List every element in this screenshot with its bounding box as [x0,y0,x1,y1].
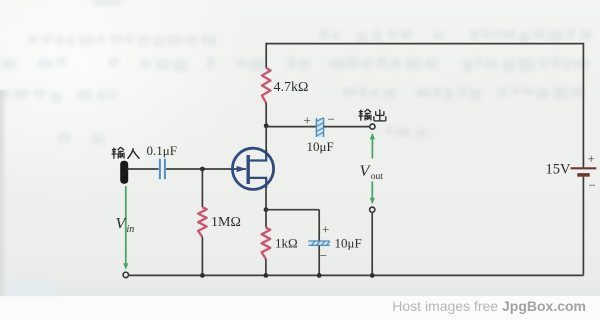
input terminal (black bar) [120,161,128,184]
node gate/R2 junction dot [200,167,205,172]
resistor R1 4.7k zigzag [262,68,271,103]
wire top rail [266,43,583,45]
wire R1 to drain [265,103,267,155]
output label 输出 (drawn glyphs) [359,111,363,113]
transistor Q1 source lead [248,178,266,188]
capacitor C1 0.1uF left plate [159,159,161,179]
transistor Q1 drain lead [248,150,266,161]
capacitor C3 10uF bypass polarized (hatched) [308,241,330,245]
Vout arrow up (green) [371,139,373,158]
wire drain node to C2 [266,126,316,128]
svg-text:+: + [322,221,329,236]
wire top rail corner down to R1 [265,43,267,68]
svg-text:10μF: 10μF [307,139,334,154]
transistor Q1 channel bar [246,155,249,184]
svg-text:V: V [360,163,372,180]
wire right side lower (battery - to bottom rail) [582,175,584,275]
svg-text:1MΩ: 1MΩ [211,215,241,230]
battery B1 15V positive plate [571,167,597,169]
svg-text:in: in [127,224,135,235]
wire R2 to bottom rail [201,237,203,275]
node output-ground junction dot [370,273,375,278]
node R2 bottom rail junction dot [200,273,205,278]
svg-text:+: + [588,151,595,166]
node C3 bottom junction dot [317,273,322,278]
output terminal circle (bottom) [370,207,375,212]
capacitor C2 10uF polarized (hatched) [316,118,324,137]
transistor Q1 JFET body circle [232,148,273,189]
wire input to coupling cap [128,168,159,170]
wire R3 to bottom rail [265,259,267,275]
wire coupling cap to gate [166,168,246,170]
node source junction dot [264,207,269,212]
svg-text:out: out [371,172,384,182]
svg-text:−: − [320,248,327,263]
wire branch down to C3 [318,210,320,241]
svg-text:4.7kΩ: 4.7kΩ [274,80,309,95]
transistor Q1 gate arrow [237,166,247,172]
svg-text:15V: 15V [546,162,572,178]
wire gate node down to R2 [201,169,203,207]
svg-text:−: − [589,178,596,193]
svg-text:1kΩ: 1kΩ [275,235,298,250]
svg-text:−: − [328,112,335,127]
capacitor C1 0.1uF right plate [164,159,166,179]
output terminal circle (top) [370,124,375,129]
wire [2,0,592,144]
input terminal circle (bottom left) [123,272,128,277]
wire source node to bypass cap branch [266,209,319,211]
svg-text:10μF: 10μF [335,235,362,250]
wire right side upper (to battery +) [582,43,584,168]
input label 输入 (drawn glyphs) [112,149,116,151]
wire bottom rail [129,274,584,276]
wire bottom output terminal to bottom rail [371,212,373,275]
node R3 bottom junction dot [264,273,269,278]
wire C3 to bottom rail [318,246,320,276]
Vout arrow down (green) [371,182,373,199]
wire C2 to output terminal [324,126,370,128]
Vin source arrow (green) [125,186,127,264]
resistor R3 1k zigzag [262,228,271,259]
wire source node down to R3 [265,210,267,228]
battery B1 negative plate [577,173,589,177]
wire source to source node [265,186,267,210]
node drain junction dot [264,123,269,128]
resistor R2 1M ohm zigzag [198,207,207,237]
svg-text:+: + [304,113,311,128]
svg-text:0.1μF: 0.1μF [147,143,177,158]
